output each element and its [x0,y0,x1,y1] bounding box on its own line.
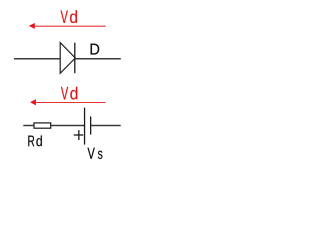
plus polarity mark [74,130,84,140]
wire (resistor to battery) [51,125,85,127]
label Vd (bottom) [61,87,77,100]
diode D cathode bar [74,43,76,73]
wire (bottom left) [23,125,33,127]
battery Vs positive plate (long bar) [84,108,86,145]
voltage arrow Vd (top, diode voltage) [29,23,106,29]
wire (top right, cathode) [75,58,121,60]
label Rd [28,136,42,147]
label D [91,44,100,55]
diode D (triangle) [60,43,75,74]
wire (top left, anode) [14,58,60,60]
label Vs [88,148,103,159]
voltage arrow Vd (bottom, across Rd+Vs) [30,99,106,105]
resistor Rd (box) [34,123,51,128]
label Vd (top) [61,10,77,23]
battery Vs negative plate (short bar) [90,116,92,134]
wire (bottom right) [91,125,121,127]
